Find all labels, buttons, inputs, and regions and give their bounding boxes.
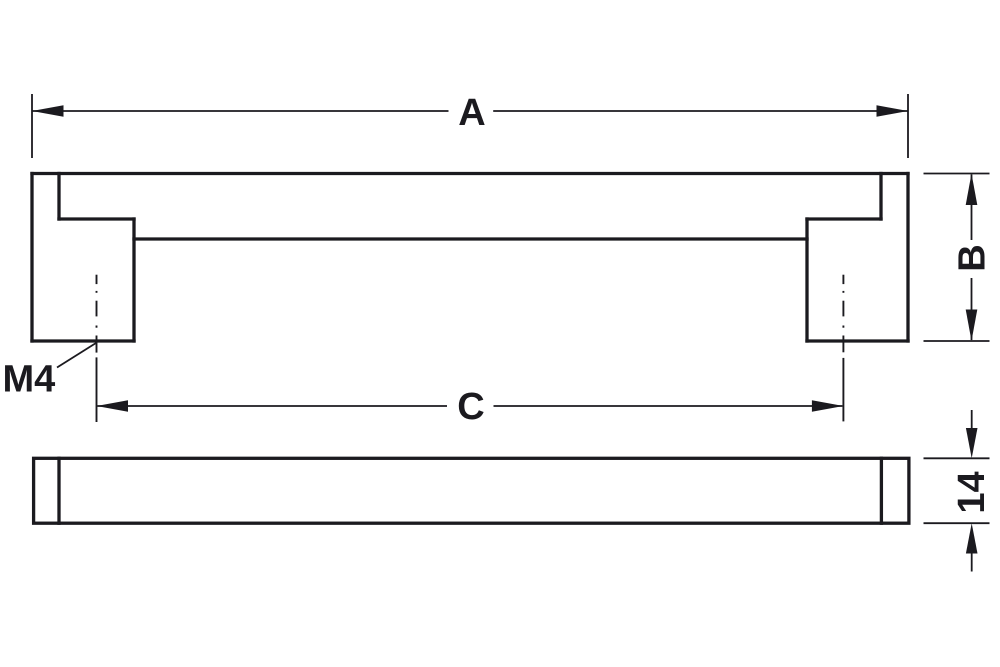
svg-text:B: B — [952, 244, 994, 271]
svg-text:A: A — [458, 92, 485, 134]
svg-text:M4: M4 — [3, 359, 56, 401]
svg-text:14: 14 — [951, 471, 993, 513]
svg-text:C: C — [457, 386, 484, 428]
